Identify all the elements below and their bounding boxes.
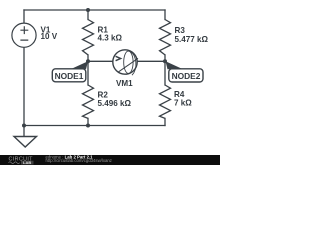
wire R1 leads: [87, 10, 89, 61]
watermark logo LAB: [21, 161, 34, 165]
junction node R2 bottom: [86, 124, 90, 128]
watermark bar: [0, 155, 220, 165]
svg-text:5.477 kΩ: 5.477 kΩ: [175, 35, 209, 44]
wire middle right (VM1 to node2): [137, 60, 165, 62]
ground: [14, 137, 37, 148]
junction node NODE2: [163, 59, 167, 63]
svg-text:R3: R3: [175, 26, 186, 35]
node flag pointer NODE1: [71, 61, 89, 69]
wire V1 top lead: [23, 10, 25, 23]
voltmeter VM1: [113, 50, 138, 75]
wire bottom rail: [24, 125, 165, 127]
svg-text:7 kΩ: 7 kΩ: [174, 99, 192, 108]
svg-text:4.3 kΩ: 4.3 kΩ: [98, 34, 123, 43]
resistor R2: [83, 85, 94, 118]
junction node NODE1: [86, 59, 90, 63]
node flag box NODE1: [52, 69, 86, 82]
svg-text:http://circuitlab.com/cgd34sw/: http://circuitlab.com/cgd34sw/lxanz: [46, 158, 112, 163]
wire R4 leads: [164, 61, 166, 125]
watermark logo wave: [9, 162, 20, 164]
voltage source V1: [12, 23, 36, 47]
junction node ground: [22, 124, 26, 128]
wire middle left (node1 to VM1): [88, 60, 113, 62]
svg-text:10 V: 10 V: [41, 32, 58, 41]
node flag pointer NODE2: [166, 61, 184, 69]
svg-text:R4: R4: [174, 90, 185, 99]
resistor R3: [160, 20, 171, 55]
node flag box NODE2: [169, 69, 203, 82]
svg-text:NODE2: NODE2: [172, 71, 201, 81]
svg-text:LAB: LAB: [23, 160, 31, 165]
wire R3 leads: [164, 10, 166, 61]
svg-text:5.496 kΩ: 5.496 kΩ: [98, 99, 132, 108]
wire V1 bottom to ground stem: [23, 47, 25, 137]
resistor R4: [160, 85, 171, 118]
svg-text:NODE1: NODE1: [55, 71, 84, 81]
junction node at R1 top: [86, 8, 90, 12]
resistor R1: [83, 20, 94, 55]
wire top rail: [24, 9, 165, 11]
wire R2 leads: [87, 61, 89, 125]
svg-text:VM1: VM1: [116, 79, 133, 88]
